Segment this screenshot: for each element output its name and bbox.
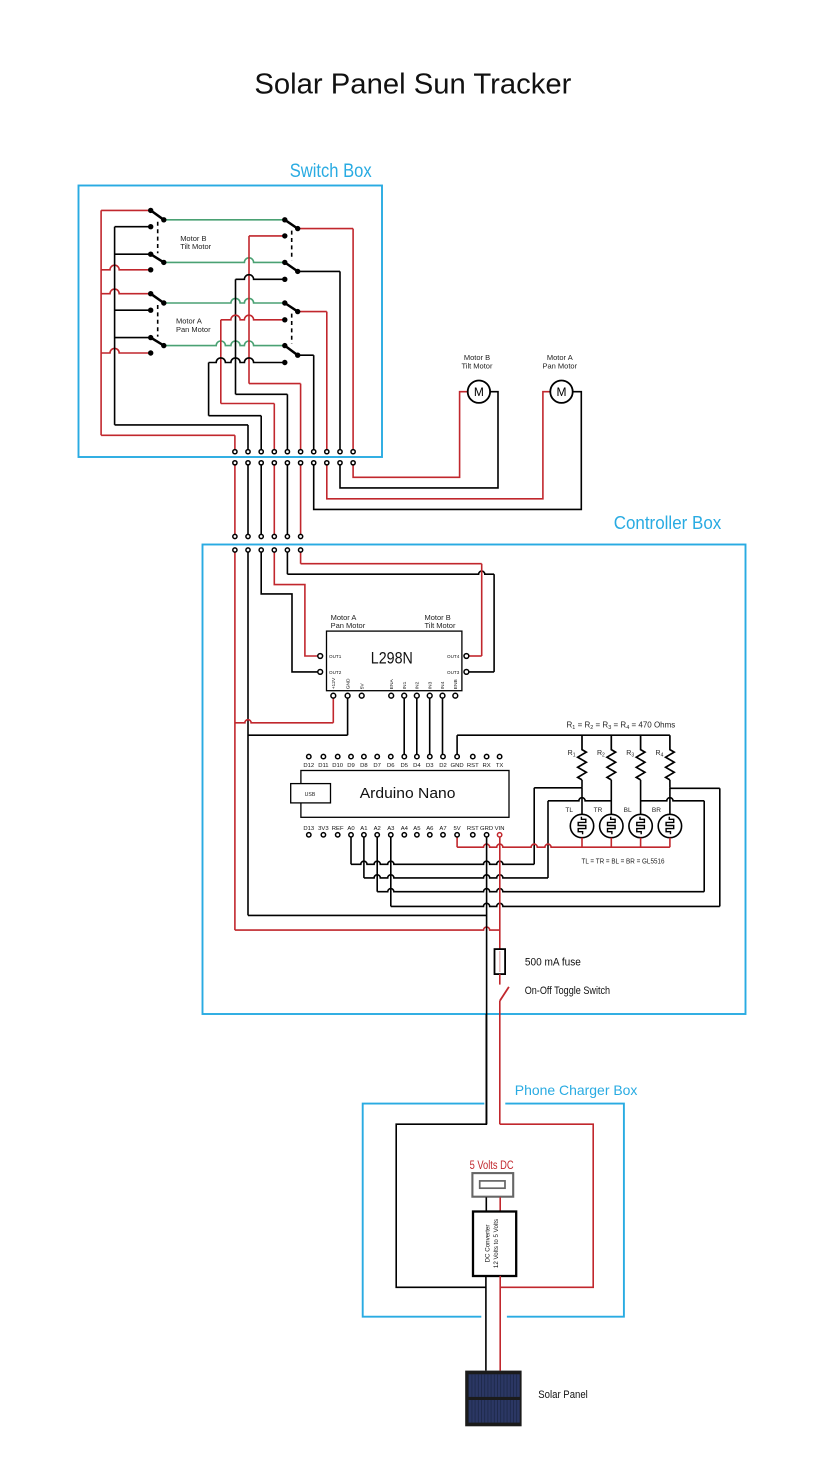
switch S3 Motor B tilt (right DPDT)	[282, 217, 300, 282]
svg-text:Tilt Motor: Tilt Motor	[425, 621, 456, 630]
svg-text:A4: A4	[401, 826, 409, 832]
wire black RS1 feed vertical	[235, 279, 237, 394]
wire fuse to switch	[499, 974, 501, 985]
wire VIN red drop	[499, 837, 501, 949]
svg-text:R1 = R2 = R3 = R4 = 470 Ohms: R1 = R2 = R3 = R4 = 470 Ohms	[567, 721, 676, 732]
phone charger box	[363, 1104, 624, 1317]
wire +12V horizontal	[235, 720, 333, 723]
svg-text:Switch Box: Switch Box	[290, 160, 372, 182]
svg-text:IN4: IN4	[440, 681, 446, 689]
svg-text:Arduino Nano: Arduino Nano	[360, 785, 456, 802]
svg-text:D11: D11	[318, 763, 328, 769]
svg-text:BR: BR	[652, 807, 661, 814]
wire col5 to OUT3 part1	[286, 550, 288, 574]
wire red stub S2 throwD	[101, 348, 151, 353]
wire A1 riser	[547, 801, 549, 878]
svg-text:D9: D9	[347, 763, 355, 769]
wire col2 to controller connector	[247, 463, 249, 537]
wire red col8 drop	[326, 312, 328, 452]
wire col2 black main vertical	[247, 550, 249, 915]
svg-text:3V3: 3V3	[318, 826, 329, 832]
wire LDR BL bottom stub	[640, 838, 642, 848]
wire A3 pin stub	[390, 837, 392, 906]
wire red col6 drop	[300, 384, 302, 452]
wire black phone loop	[396, 1014, 486, 1287]
wire black RS2 common2 out	[298, 354, 314, 356]
wire TL top lead	[581, 788, 583, 815]
wire black bus top to S1 throwB	[115, 226, 151, 228]
svg-text:Tilt Motor: Tilt Motor	[180, 242, 211, 251]
svg-text:M: M	[474, 385, 484, 399]
svg-text:TR: TR	[594, 807, 603, 814]
wire red bus top to S1 throw	[101, 209, 151, 211]
svg-text:D3: D3	[426, 763, 434, 769]
wire col3 to OUT2	[261, 550, 318, 672]
wire black RS1 feed bottom	[236, 393, 288, 395]
wire red RS2 common out	[298, 311, 327, 313]
svg-text:D6: D6	[387, 763, 395, 769]
wire red RS1 feed bottom	[249, 383, 301, 385]
LDR TL	[570, 814, 593, 837]
svg-text:D4: D4	[413, 763, 421, 769]
L298N bottom pins	[331, 677, 459, 698]
wire A0 junction horizontal	[534, 787, 582, 789]
wire red RS2 feed vertical	[220, 320, 222, 404]
wire A2 riser	[703, 801, 705, 892]
wire R4 lead to junction	[669, 780, 671, 788]
motor M1 Motor B tilt	[468, 381, 490, 403]
wire IN2 to D4	[416, 698, 418, 754]
wire black stub S2 throwC	[115, 337, 151, 339]
fuse F1 500mA	[495, 949, 506, 974]
wire col1 to VIN junction	[235, 927, 500, 930]
svg-text:A2: A2	[374, 826, 381, 832]
svg-text:OUT1: OUT1	[329, 654, 342, 659]
wire R2 lead to TR	[610, 780, 612, 814]
svg-text:GRD: GRD	[480, 826, 493, 832]
wire IN1 to D5	[403, 698, 405, 754]
LDR BL	[629, 814, 652, 837]
wire red RS1 common out	[298, 228, 353, 230]
wire col4 to controller connector	[273, 463, 275, 537]
wire black to RS1 throwD	[236, 275, 285, 280]
wire A1 pin stub	[363, 837, 365, 878]
svg-text:A3: A3	[387, 826, 395, 832]
svg-text:12 Volts to 5 Volts: 12 Volts to 5 Volts	[493, 1219, 500, 1268]
wire black col7 drop	[313, 355, 315, 452]
svg-text:TL: TL	[565, 807, 573, 814]
wire A1 horizontal	[364, 875, 548, 878]
svg-text:RX: RX	[483, 763, 491, 769]
wire red stub S2 throwA	[101, 289, 151, 294]
svg-text:IN1: IN1	[402, 681, 408, 689]
L298N module U1	[327, 631, 462, 691]
wire LDR TL bottom stub	[581, 838, 583, 848]
wire A0 horizontal	[351, 861, 534, 864]
LDR TR	[600, 814, 623, 837]
wire A2 junction horizontal	[641, 798, 705, 801]
svg-text:D5: D5	[401, 763, 409, 769]
wire GRD black drop	[486, 837, 488, 1124]
switch box	[79, 186, 383, 458]
svg-text:500 mA fuse: 500 mA fuse	[525, 957, 581, 969]
svg-text:TX: TX	[496, 763, 504, 769]
wire 5V red rail	[457, 844, 670, 847]
wire col5 to OUT3 part4	[469, 671, 494, 673]
svg-text:On-Off Toggle Switch: On-Off Toggle Switch	[525, 985, 610, 997]
resistor R1	[578, 735, 587, 780]
wire black stub S2 throwB	[115, 309, 151, 311]
pin OUT4	[464, 654, 469, 659]
wire A3 junction horizontal	[670, 787, 720, 789]
svg-text:ENA: ENA	[389, 679, 395, 690]
wire A3 riser	[719, 788, 721, 906]
wire col1 red main vertical	[234, 550, 236, 930]
svg-text:A0: A0	[347, 826, 355, 832]
svg-text:D8: D8	[360, 763, 368, 769]
svg-text:A1: A1	[360, 826, 367, 832]
svg-text:M: M	[557, 385, 567, 399]
wire usb to converter red	[499, 1197, 501, 1211]
toggle switch SW1	[500, 987, 509, 1001]
wire LDR TR bottom stub	[610, 838, 612, 848]
wire A3 horizontal	[391, 903, 720, 906]
svg-text:IN3: IN3	[427, 681, 433, 689]
wire black RS2 feed bottom	[209, 415, 262, 417]
wire red RS2 feed bottom	[221, 403, 274, 405]
wire L298N GND horizontal	[248, 734, 348, 736]
svg-text:Controller Box: Controller Box	[614, 512, 722, 533]
svg-text:RST: RST	[467, 826, 479, 832]
wire green G3	[164, 298, 285, 303]
svg-text:D10: D10	[332, 763, 344, 769]
svg-text:D12: D12	[303, 763, 314, 769]
wire col9 to motor B right	[340, 392, 498, 488]
svg-text:OUT3: OUT3	[447, 670, 460, 675]
wire A2 pin stub	[376, 837, 378, 892]
svg-text:+12V: +12V	[331, 677, 337, 689]
wire col3 to controller connector	[260, 463, 262, 537]
switch S4 Motor A pan (right DPDT)	[282, 300, 300, 365]
wire IN3 to D3	[429, 698, 431, 754]
wire black to RS2 throwD	[209, 358, 285, 363]
wire +12V to col1	[332, 698, 334, 723]
solar panel PV1	[465, 1371, 521, 1427]
controller box	[203, 545, 746, 1015]
wire col10 to motor B left	[353, 392, 468, 478]
svg-text:ENB: ENB	[453, 679, 459, 689]
pin OUT2	[318, 670, 323, 675]
wire black col5 drop	[286, 394, 288, 451]
wire R3 lead to BL	[640, 780, 642, 814]
wire red stub S1 throwD	[101, 265, 151, 270]
svg-text:5V: 5V	[453, 826, 460, 832]
resistor R2	[607, 735, 616, 780]
svg-text:5V: 5V	[359, 683, 365, 690]
svg-text:A6: A6	[426, 826, 434, 832]
svg-text:GND: GND	[451, 763, 464, 769]
wire black col3 drop	[260, 416, 262, 452]
wire A1 junction horizontal	[548, 798, 611, 801]
svg-text:TL = TR = BL = BR = GL5516: TL = TR = BL = BR = GL5516	[582, 857, 665, 866]
wire A0 pin stub	[350, 837, 352, 864]
wire IN4 to D2	[442, 698, 444, 754]
wire col5 to OUT3 part2	[287, 571, 494, 574]
Arduino bottom pins	[303, 826, 504, 837]
svg-text:VIN: VIN	[495, 826, 505, 832]
wire green G1	[164, 219, 285, 221]
wire black bus vertical	[114, 227, 116, 425]
wire col6 to OUT4 part1	[300, 550, 302, 564]
Arduino Nano U2	[301, 771, 509, 818]
svg-text:OUT4: OUT4	[447, 654, 460, 659]
wire col6 to controller connector	[300, 463, 302, 537]
switch S1 Motor B tilt (left DPDT)	[148, 208, 167, 273]
wire L298N GND to col2	[347, 698, 349, 735]
motor M2 Motor A pan	[550, 381, 572, 403]
switch S2 Motor A pan (left DPDT)	[148, 291, 167, 356]
LDR BR	[658, 814, 681, 837]
wire black RS2 feed vertical	[208, 363, 210, 416]
svg-text:A7: A7	[439, 826, 446, 832]
wire col5 to controller connector	[286, 463, 288, 537]
svg-text:5 Volts DC: 5 Volts DC	[470, 1160, 514, 1172]
svg-text:REF: REF	[332, 826, 344, 832]
wire converter to solar black	[485, 1276, 487, 1371]
wire red bus vertical	[100, 210, 102, 435]
svg-text:Solar Panel: Solar Panel	[538, 1389, 588, 1401]
wire black col2 stub	[247, 425, 249, 452]
svg-text:D7: D7	[373, 763, 381, 769]
svg-text:DC Converter: DC Converter	[484, 1225, 491, 1263]
resistor R4	[666, 735, 675, 780]
wire black col9 drop	[339, 271, 341, 451]
wire red col1 stub	[234, 435, 236, 451]
wire R1 lead to junction	[581, 780, 583, 788]
wire LDR BR bottom stub	[669, 838, 671, 848]
svg-text:Phone Charger Box: Phone Charger Box	[515, 1082, 638, 1098]
wire Arduino GND riser	[456, 735, 458, 754]
wire col4 to OUT1	[274, 550, 318, 656]
wire green G2	[164, 258, 285, 263]
wire toggle down to phone box	[499, 1001, 501, 1124]
pin OUT3	[464, 670, 469, 675]
svg-text:Solar Panel Sun Tracker: Solar Panel Sun Tracker	[254, 69, 571, 101]
wire BR top lead	[669, 788, 671, 815]
svg-text:OUT2: OUT2	[329, 670, 342, 675]
wire col1 to controller connector	[234, 463, 236, 537]
wire col5 to OUT3 part3	[493, 574, 495, 672]
svg-text:IN2: IN2	[415, 681, 421, 689]
wire col7 to motor A right	[314, 392, 582, 510]
DC converter U3	[473, 1212, 516, 1277]
wire converter to solar red	[499, 1276, 501, 1371]
wire green G4	[164, 341, 285, 346]
connector header controller box	[233, 534, 303, 552]
svg-text:D13: D13	[303, 826, 315, 832]
wire red col4 drop	[273, 404, 275, 452]
wire col6 to OUT4 part3	[481, 564, 483, 656]
wire black bus to connector col2	[115, 424, 248, 426]
USB port	[291, 784, 331, 803]
svg-text:A5: A5	[413, 826, 421, 832]
USB output port	[472, 1173, 513, 1197]
svg-text:L298N: L298N	[371, 649, 413, 668]
wire GND rail	[457, 734, 670, 736]
wire red to RS2 throwB	[221, 315, 285, 320]
svg-text:USB: USB	[305, 792, 316, 798]
wire red phone loop	[500, 1124, 593, 1287]
resistor R3	[636, 735, 645, 780]
wire A2 horizontal	[377, 889, 704, 892]
svg-text:Tilt Motor: Tilt Motor	[462, 362, 493, 371]
svg-text:Pan Motor: Pan Motor	[176, 325, 211, 334]
svg-text:Pan Motor: Pan Motor	[542, 362, 577, 371]
wire black stub S1 throwC	[115, 253, 151, 255]
connector header switch box	[233, 450, 355, 465]
wire col2 to GRD junction	[248, 914, 487, 916]
svg-text:BL: BL	[624, 807, 632, 814]
svg-text:GND: GND	[345, 678, 351, 689]
wire red col10 drop	[352, 229, 354, 452]
wire red RS1 feed vertical	[248, 236, 250, 384]
wire A0 riser	[533, 788, 535, 865]
wire red to RS1 throwB	[249, 235, 285, 237]
wire usb to converter black	[485, 1197, 487, 1211]
wire col6 to OUT4 part2	[301, 563, 482, 565]
wire red bus to connector col1	[101, 434, 235, 436]
svg-text:Pan Motor: Pan Motor	[331, 621, 366, 630]
Arduino top pins	[303, 754, 503, 769]
wire black RS1 common2 out	[298, 270, 340, 272]
wire col6 to OUT4 part4	[469, 655, 482, 657]
svg-text:D2: D2	[439, 763, 447, 769]
wire col8 to motor A left	[327, 392, 551, 499]
pin OUT1	[318, 654, 323, 659]
wire 5V pin stub	[456, 837, 458, 847]
svg-text:RST: RST	[467, 763, 479, 769]
